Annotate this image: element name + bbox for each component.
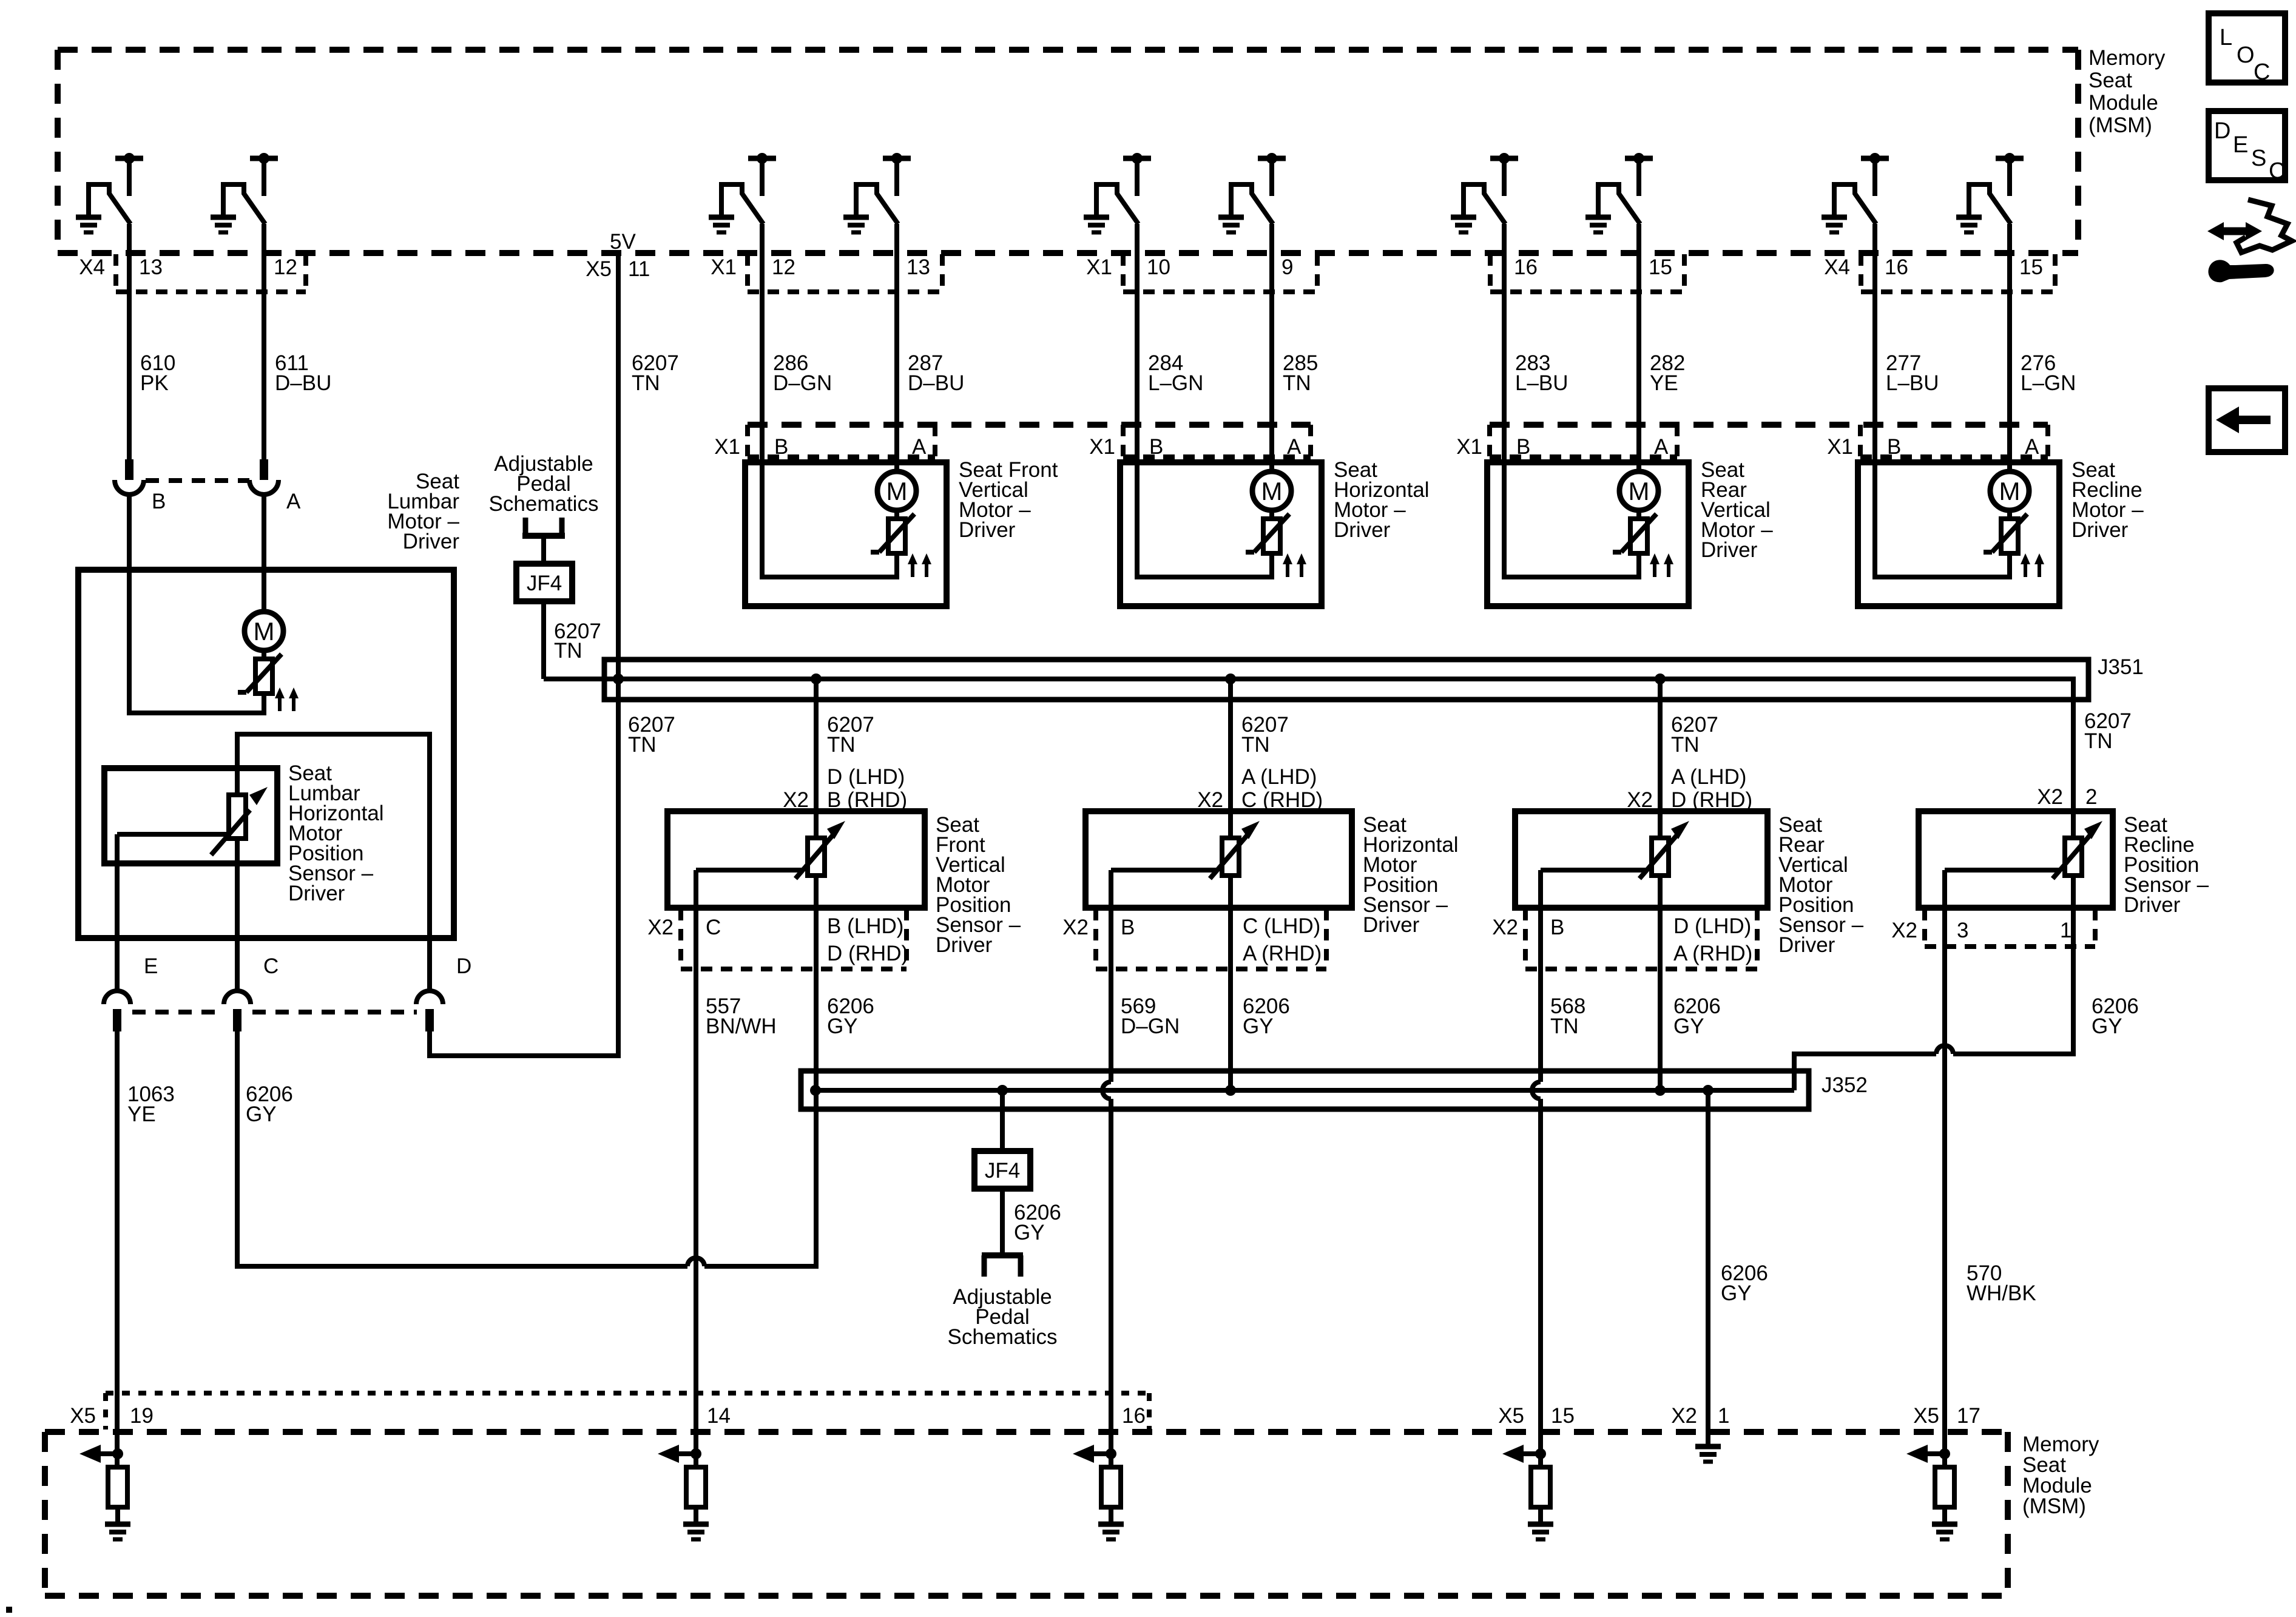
svg-text:2: 2	[2085, 785, 2097, 809]
connector pin box X1 pins 10,9	[1086, 254, 1317, 292]
svg-text:13: 13	[139, 255, 163, 279]
ground symbol (driver 4)	[843, 217, 869, 232]
svg-text:L–BU: L–BU	[1886, 371, 1939, 395]
wire 277 L-BU	[1872, 224, 1877, 462]
input termination pin 16: junction dot	[1106, 1448, 1116, 1459]
wiper wire (sensor 3)	[1541, 870, 1646, 908]
MSM output driver switch 8 (wire x=2701)	[1585, 153, 1653, 232]
svg-text:A: A	[286, 490, 301, 513]
wire 570 WH/BK (sensor 4 wiper to X5-17)	[1942, 908, 1947, 1467]
page mark bottom left	[6, 1607, 12, 1613]
junction dot J351 to sensor 3	[1655, 673, 1666, 684]
wire 6206 GY from J352 to X2-1	[1706, 1090, 1710, 1448]
motor M symbol (motor 2)	[1252, 471, 1291, 510]
svg-text:X5: X5	[1498, 1404, 1524, 1428]
wire 568 TN (sensor 3 wiper to X5-15)	[1532, 908, 1541, 1467]
wire 610 PK (X4-13 to lumbar connector B)	[127, 224, 132, 459]
bottom pin label X2 1	[1671, 1404, 1729, 1428]
svg-text:16: 16	[1122, 1404, 1146, 1428]
svg-text:J352: J352	[1822, 1073, 1868, 1097]
off-page fork symbol (bottom)	[982, 1255, 1023, 1277]
Seat Front Vertical Motor Driver box	[745, 462, 947, 606]
svg-text:GY: GY	[1721, 1281, 1752, 1305]
motor M symbol (motor 3)	[1619, 471, 1658, 510]
J352 internal bus wire 6206 GY	[815, 1088, 1794, 1093]
sensor label text (sensor 1)	[936, 813, 1021, 957]
svg-text:TN: TN	[1550, 1014, 1579, 1038]
wire 1063 YE (E to X5-19)	[115, 1031, 120, 1467]
input termination X5-14: signal arrow	[658, 1445, 696, 1463]
wire 6206 GY sensor2 to J352	[1228, 908, 1233, 1090]
position sensor box 4 (Seat Recline)	[1919, 811, 2113, 908]
svg-text:C: C	[2269, 158, 2285, 184]
lumbar motor wire A to M	[262, 495, 266, 612]
svg-text:M: M	[1999, 477, 2021, 505]
potentiometer (sensor 4)	[2053, 811, 2102, 908]
ground symbol (driver 3)	[709, 217, 734, 232]
sensor 1 connector pin box X2 C / B(LHD) D(RHD)	[647, 909, 908, 969]
svg-text:14: 14	[707, 1404, 731, 1428]
Seat Recline Motor Driver box	[1858, 462, 2059, 606]
wire label 6206 GY	[2092, 994, 2139, 1038]
internal loop wire (motor 2)	[1137, 462, 1272, 577]
input termination X5-15: signal arrow	[1502, 1445, 1541, 1463]
lumbar motor wire B into box	[127, 495, 132, 570]
junction dot J352 sensor2	[1225, 1085, 1236, 1096]
svg-text:O: O	[2237, 42, 2255, 68]
svg-text:X1: X1	[1086, 255, 1112, 279]
svg-text:X5: X5	[586, 257, 612, 281]
svg-text:Driver: Driver	[1363, 913, 1420, 937]
ground symbol (driver 10)	[1956, 217, 1982, 232]
bottom X5 connector dotted line	[106, 1393, 1149, 1430]
wiper wire (sensor 4)	[1945, 870, 2059, 908]
wire label 1063 YE	[127, 1082, 175, 1126]
wire label 6207 TN and pin (A (LHD)/C (RHD)) at x=2028	[1197, 713, 1323, 812]
svg-text:1: 1	[2060, 919, 2071, 942]
inline connector pin A (seat lumbar motor)	[249, 459, 301, 513]
svg-text:A: A	[1287, 435, 1302, 459]
ground symbol (driver 9)	[1822, 217, 1847, 232]
connector pin X5 pin 11 with 5V label	[586, 230, 650, 281]
wire 6207 TN drop to seat front vertical sensor	[814, 679, 819, 811]
wire 6207 TN from JF4 to J351	[541, 601, 546, 679]
MSM output driver switch 2 (wire x=435)	[211, 153, 278, 232]
svg-text:X5: X5	[1913, 1404, 1939, 1428]
svg-text:X1: X1	[1456, 435, 1482, 459]
ground symbol (driver 6)	[1218, 217, 1244, 232]
svg-text:GY: GY	[1014, 1221, 1045, 1244]
back arrow icon box	[2209, 388, 2285, 452]
potentiometer (sensor 1)	[795, 811, 845, 908]
label: Memory Seat Module (MSM) top right	[2088, 46, 2166, 137]
svg-text:(MSM): (MSM)	[2088, 113, 2152, 137]
PTC/variable resistor (lumbar motor)	[238, 650, 282, 694]
wire label 6206 GY	[827, 994, 874, 1038]
label: Memory Seat Module (MSM) bottom right	[2022, 1433, 2099, 1518]
direction arrows (motor 2)	[1283, 553, 1306, 577]
ground symbol (driver 2)	[211, 217, 236, 232]
wire 6207 TN 5V feed (X5-11 down to J351 and D)	[430, 253, 618, 1056]
wire label 6207 TN and pin (D (LHD)/B (RHD)) at x=1345	[783, 713, 907, 812]
input termination X5-17: pull resistor	[1935, 1467, 1954, 1524]
wire label 6207 TN and pin (A (LHD)/D (RHD)) at x=2736	[1627, 713, 1752, 812]
junction dot J352 to X2-1 ground	[1703, 1085, 1714, 1096]
wire 6206 GY sensor1 to J352	[814, 908, 819, 1090]
svg-text:C: C	[2254, 59, 2270, 85]
svg-text:D (LHD): D (LHD)	[827, 765, 905, 789]
input termination X5-19: pull resistor	[108, 1467, 127, 1524]
Memory Seat Module (MSM) bottom dashed boundary box	[45, 1432, 2008, 1596]
svg-text:B: B	[1887, 435, 1901, 459]
wire 6206 GY from J352 to JF4 (bottom)	[1000, 1090, 1005, 1151]
svg-text:D–BU: D–BU	[908, 371, 964, 395]
wire 6206 GY below JF4	[1000, 1189, 1005, 1255]
svg-text:B: B	[1149, 435, 1163, 459]
sensor label text (sensor 2)	[1363, 813, 1459, 937]
direction arrows (lumbar motor)	[275, 687, 299, 711]
svg-text:Driver: Driver	[1334, 518, 1391, 542]
input termination X5-15: junction dot	[1535, 1448, 1546, 1459]
wire label 276 L–GN	[2021, 351, 2076, 395]
MSM output driver switch 9 (wire x=3090)	[1822, 153, 1889, 232]
svg-text:9: 9	[1281, 255, 1293, 279]
motor connector pin labels X1 B/A (motor 2)	[1089, 435, 1302, 459]
seat lumbar motor assembly outer box	[78, 570, 454, 938]
svg-text:D–BU: D–BU	[275, 371, 331, 395]
svg-text:M: M	[1261, 477, 1283, 505]
svg-text:Driver: Driver	[1701, 538, 1758, 562]
label: Adjustable Pedal Schematics (top)	[489, 452, 599, 516]
internal loop wire (motor 4)	[1875, 462, 2010, 577]
ground symbol (X5-14)	[683, 1524, 709, 1539]
input termination X5-19: junction dot	[112, 1448, 123, 1459]
svg-text:B: B	[1121, 916, 1135, 939]
MSM output driver switch 3 (wire x=1256)	[709, 153, 776, 232]
ground symbol (X5-19)	[105, 1524, 130, 1539]
wire label 568 TN	[1550, 994, 1585, 1038]
svg-text:D: D	[456, 954, 471, 978]
junction dot J351 to sensor 1	[811, 673, 822, 684]
svg-text:15: 15	[1551, 1404, 1575, 1428]
wire 6207 TN drop to seat horizontal sensor	[1228, 679, 1233, 811]
wire 286 D-GN	[760, 224, 765, 462]
lumbar sensor wire D inside box	[427, 938, 432, 991]
wire 282 YE	[1636, 224, 1641, 471]
svg-text:D: D	[2214, 118, 2230, 144]
svg-text:11: 11	[628, 257, 650, 281]
connector pin box X4 pins 13,12 (top left)	[79, 254, 306, 292]
svg-text:X2: X2	[2037, 785, 2063, 809]
connector pin box X4 pins 16,15 (top right)	[1824, 254, 2055, 292]
motor connector pin labels X1 B/A (motor 3)	[1456, 435, 1669, 459]
diagnostic double-arrow and wrench icon	[2207, 200, 2292, 280]
svg-text:B: B	[152, 490, 166, 513]
ground symbol (driver 5)	[1084, 217, 1109, 232]
connector pin box pins 16,15	[1490, 254, 1684, 292]
svg-text:TN: TN	[1283, 371, 1311, 395]
svg-text:Driver: Driver	[2071, 518, 2129, 542]
svg-text:Driver: Driver	[288, 882, 345, 905]
svg-text:YE: YE	[1650, 371, 1678, 395]
svg-text:D–GN: D–GN	[773, 371, 832, 395]
wire label 282 YE	[1650, 351, 1685, 395]
sensor 4 connector pin box X2 3 / 1	[1891, 909, 2095, 947]
splice JF4 box (bottom)	[974, 1151, 1030, 1189]
dashed connector link line B-A	[146, 478, 249, 483]
svg-text:B: B	[1550, 916, 1564, 939]
wire label 557 BN/WH	[706, 994, 777, 1038]
wire 6206 GY sensor4 (recline) to J352 right end	[1794, 908, 2073, 1090]
svg-text:X1: X1	[711, 255, 737, 279]
wire label 283 L–BU	[1515, 351, 1568, 395]
svg-text:12: 12	[772, 255, 795, 279]
PTC/variable resistor inside motor 4	[1984, 510, 2027, 553]
svg-text:JF4: JF4	[985, 1159, 1020, 1183]
PTC/variable resistor inside motor 2	[1246, 510, 1289, 553]
svg-text:D (LHD): D (LHD)	[1673, 914, 1751, 938]
crossover hop over wire 557	[687, 1258, 704, 1266]
position sensor box 1 (Seat Front)	[667, 811, 925, 908]
svg-text:X2: X2	[1891, 919, 1917, 942]
svg-text:10: 10	[1147, 255, 1170, 279]
junction dot J351 at 5V feed	[613, 673, 624, 684]
wire 6207 TN drop to seat rear vertical sensor	[1658, 679, 1663, 811]
input termination X5-14: junction dot	[690, 1448, 701, 1459]
potentiometer (sensor 2)	[1210, 811, 1260, 908]
svg-text:L–BU: L–BU	[1515, 371, 1568, 395]
wire 276 L-GN	[2007, 224, 2012, 471]
wire label 6206 GY	[1673, 994, 1721, 1038]
svg-text:GY: GY	[2092, 1014, 2122, 1038]
ground symbol (driver 7)	[1451, 217, 1476, 232]
motor M symbol (motor 1)	[877, 471, 916, 510]
LOC icon box	[2209, 13, 2285, 85]
inline connector pin C (lumbar sensor)	[224, 954, 279, 1031]
inline connector pin B (seat lumbar motor)	[115, 459, 166, 513]
wire label 287 D–BU	[908, 351, 964, 395]
svg-text:L–GN: L–GN	[1148, 371, 1203, 395]
lumbar sensor wiper wire	[117, 832, 226, 837]
svg-text:X5: X5	[70, 1404, 96, 1428]
splice pack J351 outer box	[604, 660, 2088, 700]
MSM output driver switch 6 (wire x=2096)	[1218, 153, 1286, 232]
svg-text:M: M	[886, 477, 908, 505]
wire label 610 PK	[140, 351, 175, 395]
svg-text:A (LHD): A (LHD)	[1671, 765, 1746, 789]
dashed connector link line E-C-D	[132, 1010, 417, 1014]
svg-text:D–GN: D–GN	[1121, 1014, 1180, 1038]
svg-text:B (LHD): B (LHD)	[827, 914, 903, 938]
junction dot J352 to JF4	[997, 1085, 1008, 1096]
svg-text:C (LHD): C (LHD)	[1243, 914, 1320, 938]
svg-text:3: 3	[1957, 919, 1968, 942]
svg-text:A: A	[2025, 435, 2039, 459]
svg-text:12: 12	[274, 255, 297, 279]
seat lumbar horizontal motor position sensor inner box	[237, 734, 430, 938]
junction dot J351 to sensor 2	[1225, 673, 1236, 684]
bottom pin label X5 19	[70, 1404, 154, 1428]
wire label 569 D–GN	[1121, 994, 1180, 1038]
ground symbol (X2-1)	[1695, 1432, 1721, 1462]
potentiometer (sensor 3)	[1639, 811, 1689, 908]
svg-text:Schematics: Schematics	[489, 492, 599, 516]
wire label 6207 TN and pin X2-2 (recline)	[2037, 709, 2132, 809]
svg-text:GY: GY	[827, 1014, 858, 1038]
direction arrows (motor 3)	[1650, 553, 1673, 577]
sensor 3 connector pin box X2 B / D(LHD) A(RHD)	[1492, 909, 1757, 969]
MSM output driver switch 10 (wire x=3312)	[1956, 153, 2024, 232]
motor connector X1 dashed row (groups 1-2)	[748, 425, 1311, 457]
svg-text:TN: TN	[632, 371, 660, 395]
svg-text:Driver: Driver	[1778, 933, 1835, 957]
Memory Seat Module (MSM) top dashed boundary box	[58, 50, 2078, 253]
svg-text:E: E	[2233, 132, 2248, 158]
lumbar sensor housing box	[104, 768, 277, 863]
svg-text:Driver: Driver	[403, 530, 460, 553]
Seat Lumbar Horizontal Motor Position Sensor - Driver label	[288, 761, 384, 905]
svg-text:S: S	[2251, 146, 2266, 171]
svg-text:WH/BK: WH/BK	[1967, 1281, 2036, 1305]
sensor label text (sensor 3)	[1778, 813, 1864, 957]
PTC/variable resistor inside motor 3	[1613, 510, 1656, 553]
svg-text:X2: X2	[1671, 1404, 1697, 1428]
wire label 277 L–BU	[1886, 351, 1939, 395]
svg-text:Memory: Memory	[2088, 46, 2166, 70]
svg-text:J351: J351	[2098, 655, 2144, 679]
bottom pin label X5 15	[1498, 1404, 1575, 1428]
svg-text:TN: TN	[554, 639, 582, 663]
svg-text:A: A	[1654, 435, 1669, 459]
splice pack J352 outer box	[801, 1071, 1809, 1109]
off-page fork symbol (top)	[522, 518, 565, 564]
ground symbol (X5-15)	[1528, 1524, 1553, 1539]
bottom pin label X5 17	[1913, 1404, 1980, 1428]
svg-text:X1: X1	[714, 435, 740, 459]
svg-text:15: 15	[2019, 255, 2043, 279]
svg-text:A (LHD): A (LHD)	[1241, 765, 1317, 789]
svg-text:L–GN: L–GN	[2021, 371, 2076, 395]
wire label 6207 TN (drop to lumbar D)	[628, 713, 675, 757]
wire 283 L-BU	[1502, 224, 1507, 462]
motor label text (motor 1)	[959, 458, 1058, 542]
svg-text:Driver: Driver	[2124, 893, 2181, 917]
svg-text:19: 19	[130, 1404, 154, 1428]
svg-text:L: L	[2220, 25, 2232, 50]
wire 6206 GY continues to J352 junction	[704, 1090, 816, 1266]
junction dot J352 sensor1/lumbar	[810, 1085, 821, 1096]
internal loop wire (motor 1)	[762, 462, 897, 577]
wire 6206 GY (C to J352)	[237, 1031, 687, 1266]
motor label text (motor 3)	[1701, 458, 1773, 562]
input termination X5-14: pull resistor	[686, 1467, 706, 1524]
lumbar position sensor potentiometer	[211, 787, 268, 855]
svg-text:16: 16	[1885, 255, 1908, 279]
svg-text:C: C	[706, 916, 721, 939]
svg-text:E: E	[144, 954, 158, 978]
lumbar motor M symbol	[245, 612, 283, 650]
wiper wire (sensor 2)	[1111, 870, 1216, 908]
wire label 285 TN	[1283, 351, 1318, 395]
svg-text:13: 13	[907, 255, 930, 279]
Seat Lumbar Motor - Driver label	[387, 470, 459, 553]
position sensor box 2 (Seat Horizontal)	[1086, 811, 1352, 908]
svg-text:X2: X2	[647, 916, 674, 939]
svg-text:A (RHD): A (RHD)	[1243, 942, 1322, 965]
wiper wire (sensor 1)	[696, 870, 802, 908]
wire label 6207 TN	[632, 351, 679, 395]
Seat Horizontal Motor Driver box	[1120, 462, 1322, 606]
direction arrows (motor 1)	[908, 553, 931, 577]
lumbar sensor wire E inside box	[115, 834, 120, 991]
ground symbol (X5-17)	[1932, 1524, 1957, 1539]
junction dot J352 sensor3	[1655, 1085, 1666, 1096]
MSM output driver switch 7 (wire x=2479)	[1451, 153, 1518, 232]
svg-text:X4: X4	[79, 255, 105, 279]
motor connector pin labels X1 B/A (motor 4)	[1827, 435, 2039, 459]
motor connector X1 dashed row (groups 3-4)	[1490, 425, 2048, 457]
wire 569 D-GN (sensor 2 wiper to pin 16)	[1102, 908, 1111, 1467]
wire label 286 D–GN	[773, 351, 832, 395]
svg-text:5V: 5V	[610, 230, 636, 254]
sensor label text (sensor 4)	[2124, 813, 2209, 917]
lumbar motor internal loop wire	[129, 570, 264, 713]
svg-text:TN: TN	[628, 733, 657, 757]
svg-text:A: A	[912, 435, 927, 459]
J351 internal bus wire 6207 TN	[544, 679, 2073, 811]
lumbar sensor wire C inside box	[235, 839, 240, 991]
svg-text:17: 17	[1957, 1404, 1980, 1428]
svg-text:GY: GY	[246, 1102, 277, 1126]
svg-text:16: 16	[1514, 255, 1538, 279]
motor label text (motor 4)	[2071, 458, 2144, 542]
wire label 611 D–BU	[275, 351, 331, 395]
svg-text:PK: PK	[140, 371, 169, 395]
input termination pin 16: signal arrow	[1073, 1445, 1111, 1463]
svg-text:X4: X4	[1824, 255, 1850, 279]
MSM output driver switch 1 (wire x=213)	[76, 153, 143, 232]
wire label 6206 GY (C wire)	[246, 1082, 293, 1126]
input termination pin 16: pull resistor	[1101, 1467, 1121, 1524]
svg-text:JF4: JF4	[527, 572, 562, 595]
svg-text:A (RHD): A (RHD)	[1673, 942, 1752, 965]
MSM output driver switch 5 (wire x=1874)	[1084, 153, 1151, 232]
svg-text:15: 15	[1649, 255, 1672, 279]
wire 287 D-BU	[894, 224, 899, 471]
svg-text:B: B	[1516, 435, 1530, 459]
wire 284 L-GN	[1135, 224, 1140, 462]
Seat Rear Vertical Motor Driver box	[1487, 462, 1689, 606]
label: Adjustable Pedal Schematics (bottom)	[948, 1285, 1058, 1349]
wire label 6206 GY (JF4 bottom)	[1014, 1201, 1061, 1244]
svg-text:X2: X2	[1492, 916, 1518, 939]
svg-text:B: B	[774, 435, 788, 459]
svg-text:TN: TN	[827, 733, 856, 757]
wire label 6206 GY (X2-1)	[1721, 1261, 1768, 1305]
svg-text:M: M	[1629, 477, 1650, 505]
wire label 6207 TN (JF4 top)	[554, 619, 601, 663]
inline connector pin D (lumbar sensor)	[416, 954, 471, 1031]
bottom pin label 16	[1122, 1404, 1146, 1428]
internal loop wire (motor 3)	[1504, 462, 1639, 577]
wire label 570 WH/BK	[1967, 1261, 2036, 1305]
svg-text:Driver: Driver	[959, 518, 1016, 542]
svg-text:(MSM): (MSM)	[2022, 1494, 2086, 1518]
svg-text:D (RHD): D (RHD)	[827, 942, 908, 965]
svg-text:X1: X1	[1089, 435, 1115, 459]
PTC/variable resistor inside motor 1	[871, 510, 914, 553]
svg-text:1: 1	[1718, 1404, 1729, 1428]
